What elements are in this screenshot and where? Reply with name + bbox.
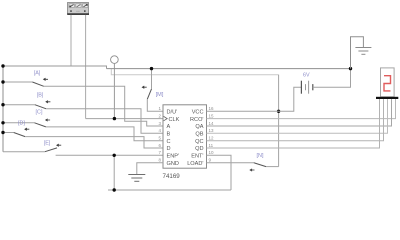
svg-text:QD: QD [195,146,203,152]
seven-segment display DS1 [381,68,395,97]
display pin bar [376,97,398,99]
switch N blade [254,163,266,167]
svg-text:10: 10 [209,150,215,155]
wire: connector right lead [85,15,87,119]
wire: switch E left (bus corner) [3,151,45,153]
node: CLK junction [113,117,116,120]
wire: CLK net [86,118,163,120]
wire: left input bus [2,66,4,152]
wire: vcc vertical drop (feed to pin16 and N switch) [278,75,280,167]
switch N actuator arrow [250,169,254,171]
svg-text:VCC: VCC [192,109,204,115]
svg-text:15: 15 [209,113,215,118]
wire: ENT' pin 10 down to bottom rail [207,155,232,190]
svg-text:RCO': RCO' [190,117,204,123]
svg-text:ENP': ENP' [167,154,180,160]
switch D actuator arrow [25,128,29,130]
U1 right pin labels [187,109,204,166]
wire: switch N to vcc drop [266,166,279,168]
svg-text:16: 16 [209,106,215,111]
wire: pushbutton stem to CLK net [113,63,115,118]
svg-text:[E]: [E] [44,140,51,146]
wire: vcc feed (light) to right column [111,69,278,75]
wire: switch E to pin 7 [56,154,163,156]
wire: M switch to pin 1 [147,99,163,111]
switch M blade [147,89,151,99]
wire: switch B left [3,104,35,106]
svg-text:[N]: [N] [257,153,264,159]
svg-text:[C]: [C] [36,110,43,116]
wire: switch C to pin 5 [46,127,163,141]
switch C actuator arrow [46,119,50,121]
svg-text:7: 7 [158,150,161,155]
switch B actuator arrow [46,101,50,103]
node: bus top junction [1,64,4,67]
U1 left pin numbers 1-8 [158,106,161,162]
svg-text:14: 14 [209,121,215,126]
svg-text:CLK: CLK [169,117,180,123]
switch A actuator arrow [44,78,48,80]
svg-text:12: 12 [209,136,215,141]
svg-text:QC: QC [195,139,203,145]
svg-text:ENT': ENT' [191,154,203,160]
wire: GND pin 8 to ground [137,163,163,175]
node: ground rail / battery junction [349,67,352,70]
wire: riser to top-right ground [351,37,364,69]
svg-text:13: 13 [209,128,215,133]
node: bottom rail junction [113,188,116,191]
wire: switch C left [3,122,35,124]
svg-text:[D]: [D] [18,121,25,127]
node: bus B junction [1,103,4,106]
wire: ENP' net drop to bottom rail [113,155,115,190]
wire: LOAD' pin 9 to switch N [207,162,254,164]
ground symbol (below IC) [128,175,145,182]
U1 clock pin triangle [164,116,168,120]
wire: switch B to pin 4 [46,109,163,134]
svg-text:[A]: [A] [34,71,41,77]
svg-text:11: 11 [209,143,214,148]
wire: QA pin 14 to display [207,99,392,126]
switch E blade [45,148,57,152]
wire: QB pin 13 to display [207,99,388,133]
display digit 2 (red segments) [384,76,391,91]
wire: bottom rail [108,189,231,191]
U1 right pin numbers 16-9 [209,106,215,162]
svg-text:QA: QA [195,124,203,130]
switch M actuator arrow [142,86,146,88]
switch B blade [35,105,46,109]
svg-text:8: 8 [158,158,161,163]
svg-text:6V: 6V [303,73,310,79]
U1 left pin labels [167,109,180,166]
wire: QC pin 12 to display [207,99,384,141]
svg-text:QB: QB [195,131,203,137]
wire: battery positive to ground rail [313,69,351,88]
node: bus C junction [1,121,4,124]
node: bus D junction [1,131,4,134]
switch C blade [35,123,46,127]
switch D blade [14,133,25,137]
svg-text:LOAD': LOAD' [187,161,203,167]
wire: ground rail (top) [107,68,351,70]
svg-text:6: 6 [158,143,161,148]
wire: QD pin 11 to display [207,99,380,148]
svg-text:D: D [167,146,171,152]
wire: M switch tap from ground rail [151,69,153,89]
battery BT1 6V [301,81,312,94]
wire: RCO' pin 15 to display [207,99,396,119]
svg-text:[B]: [B] [37,93,44,99]
switch E actuator arrow [57,144,61,146]
svg-text:9: 9 [209,158,212,163]
wire: top-left rail with step down at pushbutton [3,66,107,69]
node: bus A junction [1,80,4,83]
node: VCC junction [277,110,280,113]
svg-text:B: B [167,131,171,137]
svg-text:5: 5 [158,136,161,141]
wire: VCC pin 16 [207,110,279,112]
svg-text:2: 2 [158,113,161,118]
wire: switch D to pin 6 [25,137,163,148]
pushbutton SW-CLK (circle actuator) [111,56,119,64]
wire: battery negative link [279,87,302,111]
svg-text:D/U': D/U' [167,109,178,115]
svg-text:C: C [167,139,171,145]
wire: connector left lead [70,15,72,66]
wire: switch A left [3,81,32,83]
svg-text:1: 1 [158,106,161,111]
svg-text:3: 3 [158,121,161,126]
wire: switch D left [3,132,14,134]
svg-text:[M]: [M] [156,92,164,98]
svg-text:74169: 74169 [163,173,181,180]
wire: switch A to pin 3 [44,86,163,126]
svg-text:4: 4 [158,128,161,133]
node: ground rail / M junction [150,67,153,70]
op IC U1 74169 body [163,105,207,168]
ground symbol (top right) [355,48,371,55]
connector J1 (3-section terminal block) [67,3,89,15]
switch A blade [32,82,43,86]
node: ENP' junction [113,154,116,157]
svg-text:GND: GND [167,161,179,167]
svg-text:A: A [167,124,171,130]
